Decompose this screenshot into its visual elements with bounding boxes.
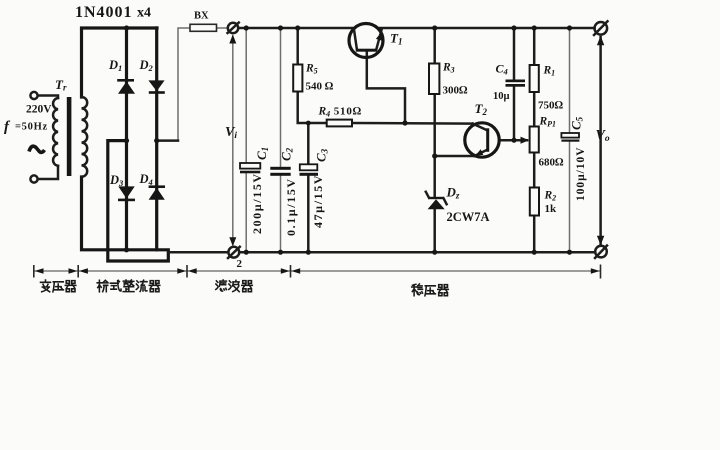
- svg-text:R5: R5: [305, 63, 318, 76]
- svg-text:D1: D1: [108, 58, 122, 73]
- svg-text:2: 2: [237, 258, 243, 270]
- svg-text:220V: 220V: [26, 104, 52, 116]
- svg-text:200µ/15V: 200µ/15V: [250, 172, 264, 234]
- svg-text:0.1µ/15V: 0.1µ/15V: [284, 177, 298, 236]
- svg-text:=50Hz: =50Hz: [15, 122, 48, 133]
- svg-text:10µ: 10µ: [493, 91, 510, 102]
- svg-text:D3: D3: [109, 173, 124, 188]
- svg-text:x4: x4: [137, 6, 151, 21]
- svg-text:1N4001: 1N4001: [75, 4, 133, 21]
- svg-text:Vi: Vi: [225, 125, 237, 141]
- svg-text:100µ/10V: 100µ/10V: [575, 147, 587, 201]
- svg-text:540 Ω: 540 Ω: [306, 81, 334, 93]
- svg-text:750Ω: 750Ω: [538, 100, 564, 112]
- svg-text:BX: BX: [194, 11, 209, 22]
- svg-text:R4 510Ω: R4 510Ω: [318, 106, 362, 119]
- svg-text:300Ω: 300Ω: [443, 85, 469, 97]
- svg-text:T1: T1: [390, 31, 402, 47]
- svg-text:2CW7A: 2CW7A: [447, 210, 490, 224]
- svg-text:R3: R3: [442, 62, 455, 75]
- svg-text:R2: R2: [544, 190, 557, 203]
- svg-text:D4: D4: [139, 172, 153, 187]
- svg-text:Tr: Tr: [55, 77, 67, 93]
- svg-text:C5: C5: [569, 116, 585, 130]
- svg-text:C1: C1: [254, 147, 270, 160]
- svg-text:1k: 1k: [545, 203, 558, 215]
- svg-text:T2: T2: [475, 101, 488, 117]
- svg-text:RP1: RP1: [539, 116, 557, 129]
- svg-text:680Ω: 680Ω: [539, 157, 565, 169]
- svg-text:47µ/15V: 47µ/15V: [311, 174, 325, 228]
- svg-text:Vo: Vo: [596, 128, 610, 144]
- svg-text:R1: R1: [543, 65, 556, 78]
- svg-text:Dz: Dz: [446, 185, 460, 201]
- svg-text:f: f: [4, 119, 11, 135]
- svg-text:C3: C3: [314, 148, 330, 162]
- svg-text:C4: C4: [496, 62, 508, 77]
- svg-text:D2: D2: [139, 58, 154, 73]
